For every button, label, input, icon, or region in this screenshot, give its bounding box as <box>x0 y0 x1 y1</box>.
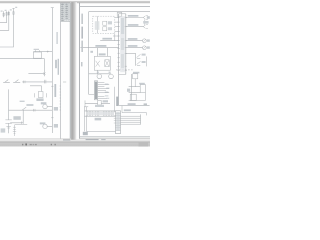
wire y112.5 label <box>124 109 131 111</box>
battery GB1 plates <box>5 120 11 124</box>
top page-edge shadow band <box>0 1 150 4</box>
revision table text specks <box>61 3 64 6</box>
wire W2 label <box>128 24 139 26</box>
right page bottom edge <box>80 138 150 140</box>
relay output stub <box>96 70 98 74</box>
wire ladder rung 1 <box>0 11 7 22</box>
wire to contact <box>22 81 52 83</box>
lamp L1 <box>43 104 47 108</box>
bundle end bar <box>140 114 142 124</box>
bottom page edge shadow <box>0 140 150 141</box>
switch S4 blade <box>22 107 26 110</box>
wire drop from rail <box>43 59 45 77</box>
contact pin stubs <box>35 93 47 97</box>
lamp L1 wire stub <box>47 106 52 108</box>
arrow CA1 tag <box>147 16 150 19</box>
right page bottom inner frame <box>80 136 150 138</box>
label under contact K1a <box>36 98 43 101</box>
connector X1 vertical strip <box>94 81 97 100</box>
rail label box <box>117 12 122 16</box>
switch S1 body <box>6 12 7 15</box>
contact C1 label <box>139 83 145 85</box>
sensor chain <box>14 125 16 136</box>
horn H1 stub <box>98 73 100 75</box>
ECU internal wire <box>97 16 99 33</box>
ECU internal labels <box>108 21 112 24</box>
ground rail label <box>128 103 136 105</box>
horn labels <box>97 72 99 73</box>
lamp symbol LS2 <box>143 46 147 50</box>
wire W3 label <box>128 38 138 40</box>
margin note VIEW <box>83 132 88 135</box>
J1 top edge <box>119 13 126 15</box>
wire stub y85.8 <box>30 86 42 92</box>
page background <box>0 0 150 150</box>
TB1 row lines <box>116 113 121 130</box>
rotated text near ground rail <box>116 97 118 106</box>
ruler ticks on left page inner frame <box>60 86 61 110</box>
wire W4 <box>126 47 143 49</box>
wire y103.6 <box>85 103 110 105</box>
wire rail y58 <box>0 58 44 60</box>
X1 wire-end specks <box>105 84 109 85</box>
status icon dot3 <box>51 144 52 146</box>
wire W5 <box>126 52 136 54</box>
contact box A <box>103 21 107 25</box>
contact box K1a <box>38 92 43 98</box>
J1 pin ticks <box>117 18 119 71</box>
relay K2 box <box>94 56 110 70</box>
wire under box <box>100 40 118 42</box>
status bar right darker block <box>139 142 149 147</box>
sensor label <box>103 100 108 102</box>
pin ticks on wire <box>23 80 46 84</box>
wire W3 <box>126 40 143 42</box>
wire W1 to connector arrow <box>126 17 144 19</box>
harness strip cell text <box>86 112 114 115</box>
bus junction ticks lower <box>51 86 53 118</box>
label above switch S4 <box>26 104 33 106</box>
label above wire y40.7 <box>102 38 112 40</box>
horn H2 stub <box>110 73 112 75</box>
wire ladder rung 3 <box>0 8 14 47</box>
left page footer mark <box>63 139 70 140</box>
J1 bottom edge <box>119 73 126 75</box>
main vertical feed wire <box>88 12 90 95</box>
ECU dashed box <box>93 16 115 33</box>
lamp symbol LS1 <box>143 39 147 43</box>
lamp L2 wire stub <box>47 125 52 127</box>
X1 wire fan <box>98 83 110 99</box>
strip pin ticks <box>88 111 113 116</box>
wire to lamp L2 <box>15 123 28 125</box>
sensor chain ticks <box>13 127 16 133</box>
terminal block TB1 <box>116 111 121 134</box>
wire drop x8.5 <box>8 89 10 110</box>
wire y131.3 <box>86 130 115 132</box>
frame tick label <box>63 81 66 83</box>
battery labels <box>13 116 20 120</box>
ground lead <box>8 110 10 133</box>
label specks left ladder <box>1 11 3 12</box>
lamp LS labels <box>147 39 150 41</box>
branch vertical <box>135 53 137 65</box>
right page margin vertical title text <box>81 14 83 24</box>
horn rail y73.8 <box>89 73 111 75</box>
status icon dot4 <box>55 144 56 146</box>
switch S3 body <box>13 12 14 15</box>
margin stub <box>84 100 86 107</box>
wire W4 label <box>128 45 138 47</box>
wire branch to battery <box>10 110 23 123</box>
status icon dot2 <box>25 144 27 146</box>
horn H2 <box>109 74 114 79</box>
revision table cell text <box>61 3 70 21</box>
dashed link row <box>116 69 134 71</box>
wire W1 label <box>128 15 139 17</box>
bus upper vertical text <box>56 32 57 44</box>
wire branch y73.6 <box>28 73 44 75</box>
left label lower right circuit <box>127 89 130 92</box>
TB1 left stubs <box>114 116 116 123</box>
J1 internal text <box>120 16 125 72</box>
bus top tick <box>51 7 54 9</box>
label above R1 <box>133 72 139 74</box>
main bus wire x52 <box>51 8 53 133</box>
inter-arrow link wire <box>144 19 146 25</box>
long rail y47.7 <box>80 47 118 49</box>
wire rail to bus <box>33 51 52 53</box>
contact box C1 <box>140 85 145 93</box>
label above rail y47.7 <box>95 45 106 47</box>
harness connector strip <box>85 111 116 116</box>
wire y100.5 <box>129 100 146 102</box>
switch S2 body <box>8 12 9 15</box>
lower right circuit vertical <box>131 74 133 101</box>
top supply rail <box>89 11 150 13</box>
fuse F1 body <box>3 13 4 16</box>
feed corner <box>89 93 95 95</box>
junction ticks <box>33 109 35 112</box>
horn H1 <box>97 74 102 79</box>
wire y92.7 <box>129 92 141 94</box>
LED D3 <box>137 61 141 65</box>
wire y112.5 upper <box>122 106 147 116</box>
right stub rail <box>145 56 147 66</box>
left page bottom edge line <box>0 138 70 140</box>
sensor box S5 <box>130 94 136 100</box>
left page inner frame line <box>60 3 62 139</box>
wire ladder rung 2 <box>0 11 9 31</box>
node tick <box>12 7 14 9</box>
LED D2 D3 labels <box>142 54 146 56</box>
fuse F1 vertical stub <box>3 11 5 17</box>
stub below R1 <box>134 79 136 87</box>
wire y86.7 <box>129 86 141 88</box>
right drop <box>144 93 146 101</box>
lamp L2 <box>43 124 47 128</box>
left page right frame line <box>69 3 71 139</box>
relay K1 pin ticks <box>36 50 40 52</box>
LED D2 <box>137 54 141 58</box>
strip header text <box>95 105 104 107</box>
switch chain blade B <box>13 80 20 83</box>
junction cross mark <box>43 72 45 74</box>
bus side vertical text 1 <box>55 60 57 68</box>
right page top frame <box>80 6 150 8</box>
connector X1 text <box>95 82 97 99</box>
lamp labels <box>41 102 47 104</box>
vertical link to harness strip <box>114 87 116 113</box>
connector arrow CA2 <box>143 25 148 29</box>
TB1 wire bundle right <box>121 116 141 124</box>
status icon dot1 <box>22 144 23 146</box>
relay K1 coil box <box>33 52 41 58</box>
ECU to J1 link wires <box>113 18 119 37</box>
drop from ECU <box>114 33 116 40</box>
label above relay K1 <box>34 49 39 50</box>
switch chain blade A <box>3 80 10 83</box>
revision table grid <box>61 3 71 21</box>
wire rail y110 <box>9 109 53 111</box>
viewer status bar band <box>0 141 150 147</box>
battery ticks <box>6 126 10 128</box>
status text 1/2 <box>30 144 32 145</box>
connector arrow CA1 <box>143 15 148 19</box>
junction cross ticks <box>47 51 49 53</box>
wire end ticks <box>22 121 24 124</box>
TB1 row text <box>116 112 120 131</box>
right page left frame <box>79 3 81 139</box>
relay K2 label <box>99 53 106 55</box>
margin drop pair <box>84 107 86 132</box>
contact box B <box>103 27 107 31</box>
gap shadow between pages <box>71 2 77 140</box>
relay K2 contact X right <box>105 60 109 67</box>
ground rail y105.6 <box>119 105 150 107</box>
wire W2 to connector arrow <box>126 26 144 28</box>
junction box J1 (tall) <box>118 14 120 106</box>
margin pair tick <box>84 106 88 108</box>
right page footer text <box>86 139 99 140</box>
relay K2 coil box <box>105 60 109 67</box>
relay feed stubs <box>97 48 107 57</box>
resistor R1 box <box>133 74 138 79</box>
relay K2 contact X left <box>96 61 100 67</box>
sensor box <box>98 100 102 105</box>
bus side vertical text 2 <box>54 84 56 97</box>
label under strip <box>95 118 102 121</box>
